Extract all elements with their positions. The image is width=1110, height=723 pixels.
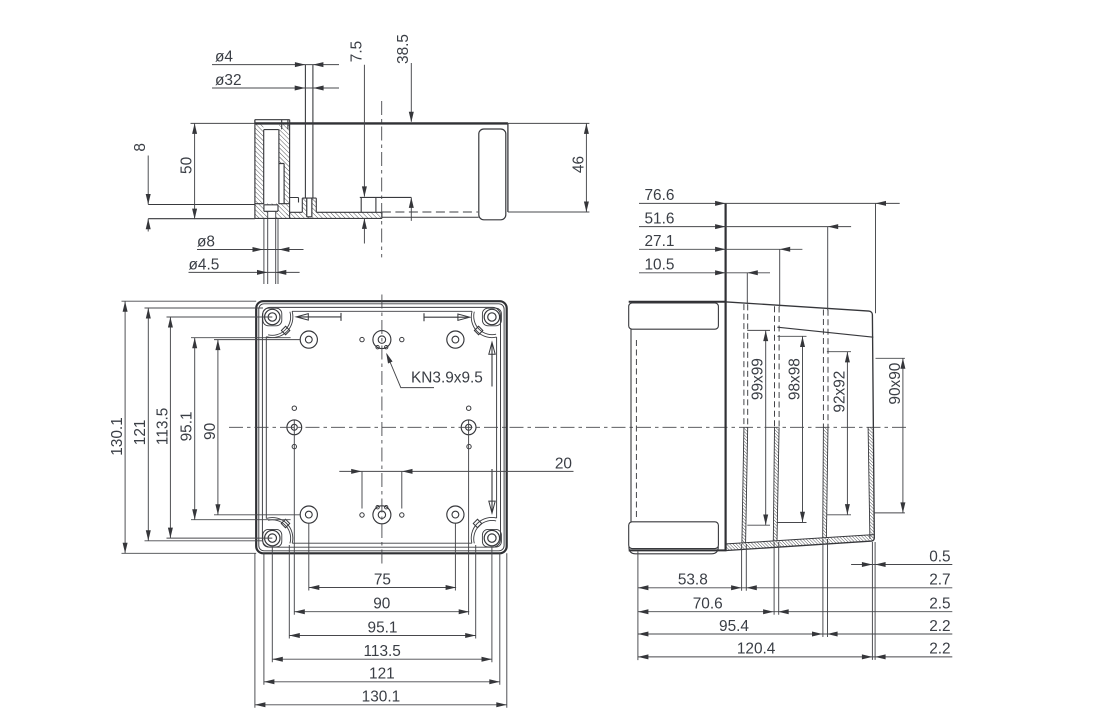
dimension ø4.5	[189, 256, 300, 275]
dimension 10.5	[639, 257, 770, 276]
svg-text:38.5: 38.5	[395, 34, 412, 64]
dimension 113.5 bottom	[272, 643, 492, 662]
small pilot hole right of centre bottom	[400, 513, 404, 517]
svg-text:46: 46	[570, 156, 587, 173]
cable boss left wall hatched	[255, 124, 263, 204]
corner diamond mark top-left	[281, 326, 289, 334]
direction arrow right lower (hollow)	[489, 469, 495, 513]
dimension 130.1 left	[109, 301, 128, 553]
svg-text:99x99: 99x99	[750, 358, 767, 400]
hidden wall 1 dashed	[744, 304, 748, 427]
side view top latch	[629, 303, 719, 329]
small pilot hole lower right side	[467, 444, 471, 448]
svg-text:ø4.5: ø4.5	[189, 256, 220, 273]
dimension 27.1	[639, 233, 802, 252]
corner screw pad top-left	[263, 308, 282, 326]
corner screw pad bottom-right	[482, 529, 501, 547]
bottom dims extension lines	[255, 421, 507, 708]
svg-text:2.2: 2.2	[929, 641, 950, 658]
svg-text:10.5: 10.5	[645, 257, 675, 274]
dimension 120.4 and 2.2	[638, 641, 952, 660]
base plate hatched section	[286, 212, 382, 218]
svg-text:95.1: 95.1	[368, 619, 398, 636]
dimension 90 bottom	[294, 596, 469, 615]
extension line for 46-dim top right	[508, 122, 590, 124]
ledge line left of pillar	[290, 198, 299, 203]
dimension 90x90	[874, 358, 905, 513]
horizontal centreline across both views	[229, 426, 909, 428]
side boss right	[461, 420, 476, 435]
dimension ø8	[197, 233, 304, 252]
mounting boss top-right	[447, 331, 464, 348]
bottom view outer outline (thick rounded square)	[256, 301, 507, 553]
small pilot hole left of centre top	[360, 337, 364, 341]
direction arrow top-right (hollow)	[424, 313, 470, 321]
svg-text:121: 121	[132, 420, 149, 446]
svg-text:53.8: 53.8	[678, 572, 708, 589]
small pilot hole lower left side	[292, 444, 296, 448]
partition wall 2 hatched	[773, 427, 779, 541]
partition wall 1 hatched	[742, 427, 748, 543]
dimension 75 bottom	[309, 571, 456, 590]
dimension 90 left	[202, 340, 221, 515]
mounting boss top-left	[300, 331, 317, 348]
svg-text:130.1: 130.1	[362, 689, 401, 706]
corner pocket arcs bottom-left	[266, 518, 293, 544]
dimension 0.5	[851, 548, 952, 567]
svg-text:20: 20	[555, 455, 572, 472]
side view left edge	[630, 329, 632, 522]
dimension ø32	[212, 72, 339, 91]
centre KN screw boss bottom	[373, 506, 391, 524]
dimension 99x99	[747, 330, 770, 525]
centre screw pillar hatched	[302, 198, 316, 217]
dimension 53.8 and 2.7	[638, 572, 952, 591]
corner diamond mark top-right	[474, 326, 482, 334]
right wall hatched	[868, 427, 874, 538]
flange face (thick vertical, also dim reference)	[724, 203, 726, 550]
small pilot hole right of centre top	[400, 337, 404, 341]
dimension 95.1 left	[179, 338, 198, 520]
dimension 121 left	[132, 308, 151, 541]
dimension 76.6	[639, 187, 900, 206]
dimension 50	[179, 123, 198, 219]
corner diamond mark bottom-left	[281, 519, 289, 527]
bottom view wall inner line A	[262, 307, 500, 547]
corner pocket arcs bottom-right	[471, 517, 496, 543]
hidden edge dashed in side view	[635, 340, 637, 517]
cover skirt lines far left	[148, 205, 255, 219]
small pilot hole upper right side	[467, 406, 471, 410]
svg-text:130.1: 130.1	[109, 417, 126, 456]
dimension 46	[570, 123, 589, 212]
hidden wall 2 dashed	[775, 306, 780, 427]
ø4 screw hole lines	[305, 65, 313, 217]
svg-text:50: 50	[179, 157, 196, 174]
corner screw pad top-right	[482, 308, 501, 326]
svg-text:ø32: ø32	[215, 72, 242, 89]
plate and pillar outline	[255, 198, 382, 218]
dimension 95.4 and 2.2	[638, 618, 952, 637]
bottom dims extension verticals	[638, 539, 875, 660]
box right edge	[507, 123, 509, 212]
corner pocket arcs top-right	[471, 311, 496, 337]
bottom view second outline	[259, 304, 504, 551]
dimension 92x92	[827, 352, 851, 515]
extension line for 50-dim at top left	[191, 122, 256, 124]
cable boss cap top line	[255, 120, 290, 130]
svg-text:95.1: 95.1	[179, 411, 196, 441]
bottom face line right part	[382, 216, 479, 218]
side view body top edge (thick)	[629, 301, 727, 303]
cable boss outline lines	[255, 120, 290, 219]
cover floor hatched	[727, 535, 874, 551]
corner screw pad bottom-left	[263, 529, 282, 547]
svg-text:KN3.9x9.5: KN3.9x9.5	[411, 370, 483, 387]
svg-text:51.6: 51.6	[645, 210, 675, 227]
dimension 121 bottom	[264, 666, 500, 685]
vertical centerline of section	[381, 101, 383, 257]
corner screw hole top-right	[484, 309, 499, 324]
dimension 20	[339, 455, 573, 508]
svg-text:2.5: 2.5	[929, 596, 950, 613]
inner top edge of cover	[777, 327, 873, 337]
svg-text:92x92: 92x92	[831, 371, 848, 413]
svg-text:121: 121	[369, 666, 395, 683]
dimension 95.1 bottom	[289, 619, 475, 638]
hidden rim dashed line	[382, 211, 478, 213]
ø8 and ø4.5 hole extension lines below boss	[264, 211, 278, 284]
svg-text:90x90: 90x90	[887, 363, 904, 405]
svg-text:113.5: 113.5	[154, 408, 171, 445]
section view: cover top edge (thick)	[255, 122, 508, 124]
svg-text:98x98: 98x98	[786, 358, 803, 400]
side boss left	[287, 420, 302, 435]
svg-text:8: 8	[132, 143, 149, 152]
svg-text:90: 90	[373, 596, 390, 613]
svg-text:0.5: 0.5	[929, 548, 950, 565]
corner screw hole top-left	[265, 309, 280, 324]
dimension 98x98	[778, 336, 807, 522]
corner diamond mark bottom-right	[473, 519, 481, 527]
dimension 130.1 bottom	[255, 689, 507, 708]
svg-text:ø8: ø8	[197, 233, 215, 250]
svg-text:27.1: 27.1	[645, 233, 675, 250]
dimension 70.6 and 2.5	[638, 596, 952, 615]
dimension 113.5 left	[154, 317, 173, 538]
svg-text:90: 90	[202, 423, 219, 440]
corner pocket arcs top-left	[266, 311, 293, 337]
vertical centreline of bottom view	[381, 295, 383, 568]
tapered cover outline	[727, 302, 875, 551]
svg-text:95.4: 95.4	[719, 618, 749, 635]
left dims extension lines	[122, 301, 301, 553]
svg-text:113.5: 113.5	[364, 643, 401, 660]
bottom view wall inner line B (sides)	[266, 311, 496, 543]
corner screw hole bottom-left	[265, 530, 280, 545]
svg-text:2.2: 2.2	[929, 618, 950, 635]
side view bottom latch	[629, 522, 719, 554]
dimension ø4	[212, 49, 339, 68]
mounting boss bottom-left	[300, 506, 317, 523]
svg-text:ø4: ø4	[215, 49, 233, 66]
direction arrow right upper (hollow)	[489, 342, 495, 386]
direction arrow top-left (hollow)	[296, 313, 341, 321]
extension line for 46-dim bottom	[508, 211, 590, 213]
dimension 38.5	[395, 34, 414, 221]
centre KN screw boss top	[373, 331, 391, 349]
svg-text:75: 75	[374, 571, 391, 588]
dimension 7.5	[348, 41, 367, 244]
side latch rounded rectangle	[479, 129, 506, 220]
ledge line right with step	[360, 197, 412, 212]
cable boss bottom block hatched	[255, 204, 289, 219]
cable boss right wall hatched	[279, 124, 289, 204]
top dims extension verticals	[747, 203, 875, 313]
svg-text:7.5: 7.5	[348, 41, 365, 62]
partition wall 3 hatched	[823, 427, 828, 538]
svg-text:2.7: 2.7	[929, 572, 950, 589]
dimension 8	[132, 143, 151, 231]
corner screw hole bottom-right	[484, 530, 499, 545]
svg-text:70.6: 70.6	[693, 596, 723, 613]
side view body bottom edge (thick)	[629, 549, 727, 551]
small pilot hole left of centre bottom	[360, 513, 364, 517]
KN3.9x9.5 label and leader	[384, 352, 483, 388]
small pilot hole upper left side	[292, 406, 296, 410]
dimension 51.6	[639, 210, 851, 229]
svg-text:76.6: 76.6	[645, 187, 675, 204]
hidden wall 3 dashed	[823, 310, 828, 428]
svg-text:120.4: 120.4	[737, 641, 776, 658]
mounting boss bottom-right	[447, 506, 464, 523]
